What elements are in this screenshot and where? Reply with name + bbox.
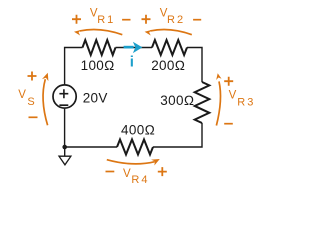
svg-text:V: V — [18, 89, 26, 101]
VS arrow arc — [43, 79, 48, 125]
VR3 arrowhead — [215, 73, 222, 80]
svg-text:R3: R3 — [237, 96, 255, 108]
VR4 minus sign — [106, 171, 115, 173]
VS minus sign — [29, 116, 38, 118]
svg-text:100Ω: 100Ω — [81, 58, 115, 73]
VR1 label group — [72, 8, 131, 26]
source plus sign — [59, 89, 68, 98]
resistor R1 100 ohm — [83, 40, 116, 55]
VS label group — [18, 72, 37, 118]
VR3 arrow arc — [216, 81, 220, 125]
svg-text:300Ω: 300Ω — [160, 93, 194, 108]
VR3 plus sign — [224, 77, 233, 86]
VR4 arrow arc — [107, 160, 155, 164]
junction node dot — [62, 145, 67, 150]
svg-text:i: i — [130, 53, 134, 70]
svg-text:R4: R4 — [131, 174, 149, 186]
VS arrowhead — [42, 72, 51, 82]
ground triangle — [59, 156, 71, 165]
wire top middle between R1 and R2 — [116, 47, 153, 49]
svg-text:400Ω: 400Ω — [121, 123, 155, 138]
VR4 plus sign — [158, 167, 167, 176]
svg-text:20V: 20V — [83, 90, 108, 105]
svg-text:R1: R1 — [97, 14, 115, 26]
VR4 arrowhead — [151, 156, 161, 166]
svg-text:R2: R2 — [167, 14, 185, 26]
VR2 minus sign — [193, 19, 201, 21]
VR2 plus sign — [142, 15, 151, 24]
source minus sign — [59, 104, 68, 106]
svg-text:V: V — [123, 168, 131, 180]
VS plus sign — [28, 72, 37, 81]
VR3 minus sign — [224, 123, 233, 125]
VR2 arrowhead — [144, 29, 152, 36]
resistor R2 200 ohm — [152, 40, 187, 55]
VR1 arrow arc — [80, 29, 123, 34]
svg-text:V: V — [229, 90, 237, 102]
voltage source VS circle — [53, 85, 76, 108]
current arrow i (blue) — [124, 42, 143, 53]
VR2 label group — [142, 8, 202, 26]
VR1 minus sign — [122, 19, 130, 21]
wire right lower vertical + bottom-right segment — [153, 123, 202, 147]
VR1 plus sign — [72, 15, 81, 24]
svg-text:S: S — [27, 96, 34, 108]
svg-text:200Ω: 200Ω — [151, 58, 185, 73]
VR1 arrowhead — [74, 29, 82, 36]
VR4 label group — [106, 167, 167, 186]
ground stub — [64, 147, 66, 156]
wire bottom-left segment + left lower vertical — [65, 109, 117, 147]
resistor R4 400 ohm — [117, 140, 153, 155]
VR3 label group — [224, 77, 255, 124]
wire top-right + right upper vertical — [187, 48, 202, 83]
wire top-left: left upper vertical + top-left segment — [65, 48, 83, 85]
resistor R3 300 ohm — [195, 82, 210, 123]
VR2 arrow arc — [150, 29, 192, 34]
